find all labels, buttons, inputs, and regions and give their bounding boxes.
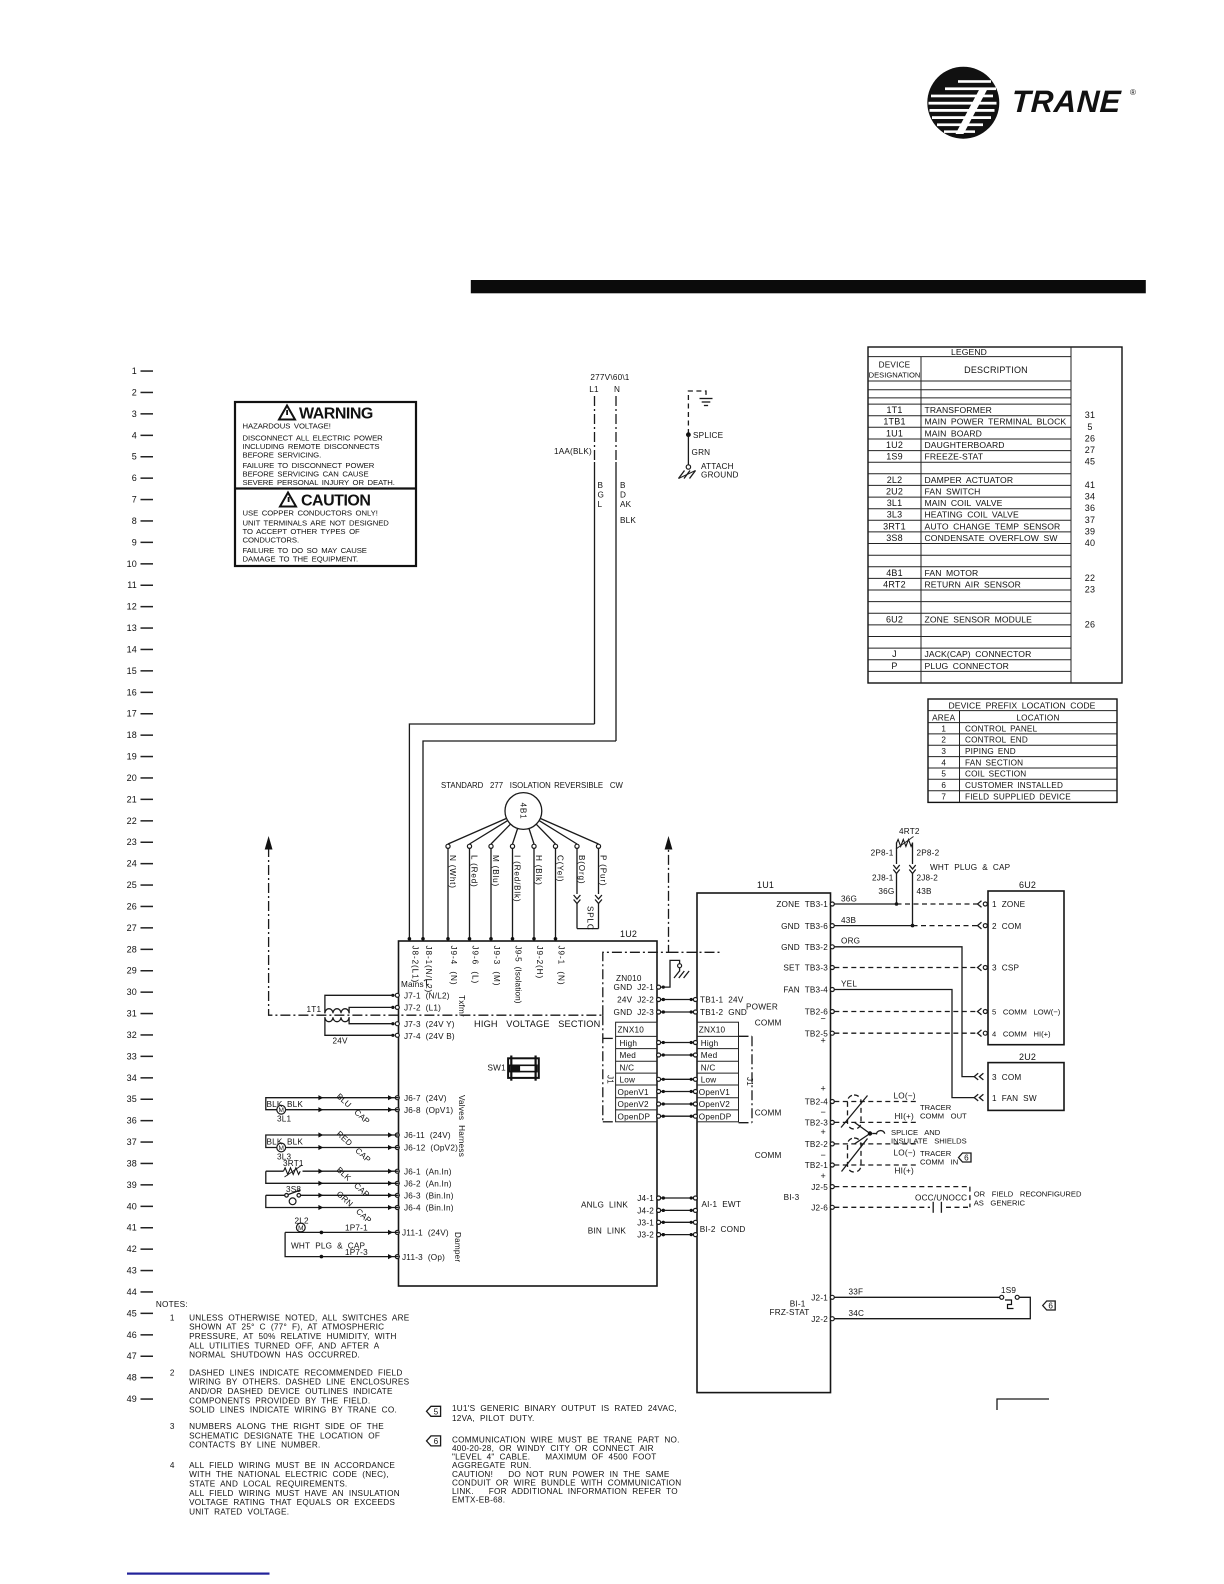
svg-text:J7-2 (L1): J7-2 (L1) bbox=[404, 1003, 441, 1012]
svg-text:TB1-1 24V: TB1-1 24V bbox=[700, 996, 744, 1005]
svg-text:18: 18 bbox=[127, 730, 137, 740]
svg-text:POWER: POWER bbox=[746, 1003, 778, 1012]
svg-text:41: 41 bbox=[127, 1223, 137, 1233]
1U2 damper pins J11 bbox=[395, 1229, 462, 1263]
svg-text:JACK(CAP) CONNECTOR: JACK(CAP) CONNECTOR bbox=[925, 649, 1032, 659]
wire GRN bbox=[688, 435, 710, 465]
svg-text:B(Org): B(Org) bbox=[577, 855, 586, 884]
svg-text:22: 22 bbox=[127, 816, 137, 826]
motor wire N (Wht) to 1U2 bbox=[446, 848, 457, 941]
twisted pair capsule in bbox=[842, 1134, 871, 1173]
svg-text:ANLG LINK: ANLG LINK bbox=[581, 1201, 628, 1210]
1U2 top pin labels bbox=[410, 946, 565, 1004]
svg-text:SW1: SW1 bbox=[488, 1064, 507, 1073]
svg-text:36: 36 bbox=[1085, 503, 1095, 513]
1U1 TB1 power pins bbox=[700, 996, 778, 1017]
svg-text:LO(−): LO(−) bbox=[894, 1092, 916, 1101]
wire ZNX10 OpenV2 bbox=[657, 1102, 698, 1106]
svg-text:J2-2: J2-2 bbox=[811, 1315, 828, 1324]
svg-text:LO(−): LO(−) bbox=[894, 1148, 916, 1157]
svg-text:HIGH VOLTAGE SECTION: HIGH VOLTAGE SECTION bbox=[474, 1019, 600, 1029]
svg-text:Low: Low bbox=[620, 1075, 636, 1084]
svg-text:FAN SWITCH: FAN SWITCH bbox=[925, 487, 981, 497]
note 6 text bbox=[452, 1435, 681, 1504]
svg-text:ALL UTILITIES TURNED OFF, AND: ALL UTILITIES TURNED OFF, AND AFTER A bbox=[189, 1341, 380, 1350]
svg-text:13: 13 bbox=[127, 623, 137, 633]
1U2 Mains pins J7 bbox=[391, 980, 466, 1041]
svg-text:J2-1: J2-1 bbox=[811, 1294, 828, 1303]
wire SET TB3-3 to 6U2 CSP bbox=[834, 967, 977, 969]
svg-text:−: − bbox=[821, 1014, 826, 1024]
svg-text:2 COM: 2 COM bbox=[992, 922, 1021, 931]
svg-text:3 CSP: 3 CSP bbox=[992, 964, 1019, 973]
svg-text:6: 6 bbox=[941, 781, 946, 790]
svg-text:OpenV1: OpenV1 bbox=[699, 1088, 730, 1097]
svg-text:47: 47 bbox=[127, 1351, 137, 1361]
wire 24V J2-2 to TB1-1 bbox=[657, 998, 698, 1002]
wire L1 elbow to J8-2 bbox=[409, 724, 594, 941]
svg-text:J1: J1 bbox=[606, 1075, 615, 1084]
svg-text:12VA, PILOT DUTY.: 12VA, PILOT DUTY. bbox=[452, 1414, 535, 1423]
svg-text:PLUG CONNECTOR: PLUG CONNECTOR bbox=[925, 661, 1009, 671]
svg-text:1: 1 bbox=[170, 1313, 175, 1322]
svg-text:NOTES:: NOTES: bbox=[156, 1300, 188, 1309]
svg-text:36: 36 bbox=[127, 1116, 137, 1126]
wire ORG GND TB3-2 to 2U2 COM bbox=[834, 936, 974, 1076]
svg-text:OpenDP: OpenDP bbox=[699, 1112, 732, 1121]
svg-text:J6-7 (24V): J6-7 (24V) bbox=[404, 1094, 447, 1103]
svg-text:J3-2: J3-2 bbox=[637, 1231, 654, 1240]
svg-text:24V: 24V bbox=[333, 1037, 349, 1046]
svg-text:OR FIELD RECONFIGURED: OR FIELD RECONFIGURED bbox=[974, 1190, 1082, 1199]
svg-text:6U2: 6U2 bbox=[886, 614, 903, 624]
svg-text:High: High bbox=[620, 1039, 638, 1048]
svg-text:ZONE SENSOR MODULE: ZONE SENSOR MODULE bbox=[925, 614, 1033, 624]
motor terminal circles bbox=[446, 844, 601, 848]
legend table bbox=[868, 347, 1122, 683]
svg-text:23: 23 bbox=[127, 837, 137, 847]
svg-text:BEFORE SERVICING.: BEFORE SERVICING. bbox=[243, 451, 322, 460]
svg-text:49: 49 bbox=[127, 1394, 137, 1404]
svg-text:BI-3: BI-3 bbox=[784, 1193, 800, 1202]
svg-text:33F: 33F bbox=[849, 1288, 864, 1297]
wire L1 vertical bbox=[594, 396, 596, 724]
svg-text:WITH THE NATIONAL ELECTRIC COD: WITH THE NATIONAL ELECTRIC CODE (NEC), bbox=[189, 1470, 389, 1479]
wire color tag BDAK BLK bbox=[620, 481, 636, 525]
svg-text:16: 16 bbox=[127, 687, 137, 697]
1U1 ZNX10 connector block bbox=[697, 1022, 739, 1122]
svg-text:AS GENERIC: AS GENERIC bbox=[974, 1199, 1026, 1208]
wire ZNX10 OpenDP bbox=[657, 1114, 698, 1118]
svg-text:HAZARDOUS VOLTAGE!: HAZARDOUS VOLTAGE! bbox=[243, 422, 331, 431]
earth ground symbol top bbox=[688, 391, 712, 434]
svg-text:SHOWN AT 25° C (77° F), AT ATM: SHOWN AT 25° C (77° F), AT ATMOSPHERIC bbox=[189, 1323, 384, 1332]
svg-text:14: 14 bbox=[127, 644, 137, 654]
svg-text:DEVICE PREFIX LOCATION CODE: DEVICE PREFIX LOCATION CODE bbox=[948, 701, 1095, 711]
svg-text:Damper: Damper bbox=[453, 1232, 462, 1262]
svg-text:OpenV1: OpenV1 bbox=[618, 1088, 649, 1097]
svg-text:43: 43 bbox=[127, 1266, 137, 1276]
svg-text:5: 5 bbox=[941, 770, 946, 779]
svg-text:4: 4 bbox=[170, 1461, 175, 1470]
wire YEL FAN TB3-4 to 2U2 FAN SW bbox=[834, 980, 974, 1098]
wire TB2-5 to COMM HI bbox=[834, 1032, 977, 1034]
svg-text:J6-12 (OpV2): J6-12 (OpV2) bbox=[404, 1144, 458, 1153]
damper actuator 2L2 bbox=[285, 1216, 398, 1259]
svg-text:3: 3 bbox=[132, 409, 137, 419]
svg-text:TB2-2: TB2-2 bbox=[805, 1140, 829, 1149]
svg-text:J6-1 (An.In): J6-1 (An.In) bbox=[404, 1167, 452, 1176]
node L1 277V feed bbox=[589, 373, 630, 394]
svg-text:CONTACTS BY LINE NUMBER.: CONTACTS BY LINE NUMBER. bbox=[189, 1441, 320, 1450]
SPLC splice bracket bbox=[577, 906, 599, 931]
note 5 text bbox=[452, 1404, 677, 1423]
svg-text:36G: 36G bbox=[841, 895, 857, 904]
svg-text:COMPONENTS PROVIDED BY THE FIE: COMPONENTS PROVIDED BY THE FIELD. bbox=[189, 1396, 370, 1405]
svg-text:5 COMM LOW(−): 5 COMM LOW(−) bbox=[992, 1008, 1061, 1017]
freeze stat 1S9 circuit bbox=[834, 1286, 1030, 1319]
svg-text:23: 23 bbox=[1085, 585, 1095, 595]
fan switch 2U2 bbox=[988, 1052, 1064, 1111]
svg-text:J7-1 (N/L2): J7-1 (N/L2) bbox=[404, 991, 450, 1000]
svg-text:4: 4 bbox=[941, 758, 946, 767]
svg-text:J9-4 (N): J9-4 (N) bbox=[449, 946, 458, 986]
svg-text:48: 48 bbox=[127, 1373, 137, 1383]
svg-text:6: 6 bbox=[964, 1154, 969, 1163]
wire N vertical bbox=[615, 396, 617, 741]
return air sensor 4RT2 bbox=[871, 827, 1011, 927]
motor wire C(Yel) to 1U2 bbox=[554, 848, 565, 941]
svg-text:4 COMM HI(+): 4 COMM HI(+) bbox=[992, 1029, 1051, 1038]
svg-text:43B: 43B bbox=[917, 887, 933, 896]
svg-text:OpenV2: OpenV2 bbox=[699, 1100, 730, 1109]
svg-text:FAN TB3-4: FAN TB3-4 bbox=[783, 986, 828, 995]
high voltage section boundary bbox=[265, 836, 720, 1015]
svg-text:3L3: 3L3 bbox=[887, 510, 903, 520]
J1 bracket 1U1 bbox=[739, 1036, 755, 1122]
wire J3-1 BI-2 bbox=[657, 1220, 698, 1224]
svg-text:34: 34 bbox=[127, 1073, 137, 1083]
device prefix location code table bbox=[928, 699, 1117, 802]
svg-text:MAIN POWER TERMINAL BLOCK: MAIN POWER TERMINAL BLOCK bbox=[925, 417, 1067, 427]
svg-text:COMM: COMM bbox=[755, 1109, 782, 1118]
wire color tag BGL bbox=[598, 481, 605, 509]
svg-text:Low: Low bbox=[701, 1075, 717, 1084]
shield splice bbox=[868, 1131, 885, 1136]
svg-text:37: 37 bbox=[1085, 515, 1095, 525]
svg-text:FRZ-STAT: FRZ-STAT bbox=[770, 1308, 810, 1317]
svg-text:M: M bbox=[298, 1225, 303, 1232]
svg-text:1P7-3: 1P7-3 bbox=[345, 1248, 368, 1257]
svg-text:WHT PLUG & CAP: WHT PLUG & CAP bbox=[930, 863, 1011, 872]
warning caution box bbox=[235, 402, 416, 566]
svg-text:40: 40 bbox=[127, 1201, 137, 1211]
svg-text:33: 33 bbox=[127, 1051, 137, 1061]
svg-text:FIELD SUPPLIED DEVICE: FIELD SUPPLIED DEVICE bbox=[965, 792, 1071, 801]
svg-text:MAIN BOARD: MAIN BOARD bbox=[925, 428, 982, 438]
valve 3L3 bbox=[266, 1129, 399, 1165]
svg-text:J11-1 (24V): J11-1 (24V) bbox=[402, 1229, 449, 1238]
svg-text:25: 25 bbox=[127, 880, 137, 890]
svg-text:26: 26 bbox=[127, 901, 137, 911]
DIP switch SW1 bbox=[488, 1056, 539, 1081]
svg-text:INSULATE SHIELDS: INSULATE SHIELDS bbox=[891, 1137, 967, 1146]
svg-text:46: 46 bbox=[127, 1330, 137, 1340]
svg-text:LOCATION: LOCATION bbox=[1016, 714, 1059, 723]
svg-text:17: 17 bbox=[127, 709, 137, 719]
svg-text:22: 22 bbox=[1085, 573, 1095, 583]
svg-text:3L1: 3L1 bbox=[277, 1115, 292, 1124]
svg-text:J3-1: J3-1 bbox=[637, 1218, 654, 1227]
svg-text:J6-2 (An.In): J6-2 (An.In) bbox=[404, 1180, 452, 1189]
svg-text:J9-3 (M): J9-3 (M) bbox=[492, 946, 501, 987]
svg-text:GND TB3-6: GND TB3-6 bbox=[781, 922, 828, 931]
svg-text:P (Pur): P (Pur) bbox=[599, 855, 608, 886]
svg-text:31: 31 bbox=[127, 1009, 137, 1019]
fan motor 4B1 bbox=[505, 793, 542, 830]
svg-text:+: + bbox=[821, 1084, 826, 1094]
svg-text:45: 45 bbox=[1085, 457, 1095, 467]
svg-text:C(Yel): C(Yel) bbox=[556, 855, 565, 882]
tracer comm in wires bbox=[834, 1144, 916, 1165]
2U2 pin connectors bbox=[974, 1073, 983, 1101]
svg-text:1U1: 1U1 bbox=[757, 880, 774, 890]
svg-text:7: 7 bbox=[941, 792, 946, 801]
svg-text:42: 42 bbox=[127, 1244, 137, 1254]
svg-text:CONDENSATE OVERFLOW SW: CONDENSATE OVERFLOW SW bbox=[925, 533, 1059, 543]
svg-text:ZNX10: ZNX10 bbox=[618, 1026, 645, 1035]
svg-text:DAUGHTERBOARD: DAUGHTERBOARD bbox=[925, 440, 1005, 450]
motor wire H (Blk) to 1U2 bbox=[532, 848, 543, 941]
svg-text:COMM: COMM bbox=[755, 1151, 782, 1160]
condensate overflow switch 3S8 bbox=[266, 1185, 399, 1226]
svg-text:3 COM: 3 COM bbox=[992, 1073, 1021, 1082]
6U2 pin connectors bbox=[978, 901, 988, 1037]
svg-text:−: − bbox=[821, 1150, 826, 1160]
svg-text:26: 26 bbox=[1085, 434, 1095, 444]
blue reference line bbox=[127, 1573, 270, 1575]
svg-text:MAIN COIL VALVE: MAIN COIL VALVE bbox=[925, 498, 1003, 508]
svg-text:1 FAN SW: 1 FAN SW bbox=[992, 1094, 1037, 1103]
svg-text:29: 29 bbox=[127, 966, 137, 976]
svg-text:1TB1: 1TB1 bbox=[883, 417, 905, 427]
svg-text:FAN MOTOR: FAN MOTOR bbox=[925, 568, 979, 578]
svg-text:2J8-1: 2J8-1 bbox=[872, 874, 894, 883]
wire J3-2 bbox=[657, 1233, 698, 1237]
svg-text:2U2: 2U2 bbox=[1019, 1052, 1036, 1062]
svg-text:SOLID LINES INDICATE WIRING BY: SOLID LINES INDICATE WIRING BY TRANE CO. bbox=[189, 1406, 397, 1415]
svg-text:1S9: 1S9 bbox=[1001, 1286, 1016, 1295]
svg-text:5: 5 bbox=[132, 452, 137, 462]
svg-text:TB1-2 GND: TB1-2 GND bbox=[700, 1008, 747, 1017]
svg-text:DASHED LINES INDICATE RECOMMEN: DASHED LINES INDICATE RECOMMENDED FIELD bbox=[189, 1368, 402, 1377]
svg-text:GRN: GRN bbox=[692, 448, 711, 457]
tracer comm labels bbox=[891, 1092, 967, 1176]
svg-text:AUTO CHANGE TEMP SENSOR: AUTO CHANGE TEMP SENSOR bbox=[925, 521, 1061, 531]
1U2 ZNX10 connector block bbox=[616, 1022, 657, 1122]
svg-text:D: D bbox=[620, 491, 626, 500]
svg-text:DAMAGE TO THE EQUIPMENT.: DAMAGE TO THE EQUIPMENT. bbox=[243, 555, 359, 564]
svg-text:34C: 34C bbox=[849, 1309, 865, 1318]
svg-text:4RT2: 4RT2 bbox=[899, 827, 920, 836]
svg-text:J7-4 (24V B): J7-4 (24V B) bbox=[404, 1032, 455, 1041]
wire N elbow to J8-1 bbox=[423, 741, 616, 941]
ground at GND J2-1 bbox=[661, 960, 690, 987]
svg-text:TRANSFORMER: TRANSFORMER bbox=[925, 405, 992, 415]
svg-text:FAN SECTION: FAN SECTION bbox=[965, 758, 1023, 767]
svg-text:5: 5 bbox=[434, 1407, 439, 1416]
wire ZNX10 High bbox=[657, 1041, 698, 1045]
svg-text:1 ZONE: 1 ZONE bbox=[992, 900, 1026, 909]
zone sensor module 6U2 bbox=[988, 880, 1064, 1045]
drawing corner mark bbox=[997, 1399, 1049, 1410]
svg-text:27: 27 bbox=[127, 923, 137, 933]
notes block bbox=[156, 1300, 410, 1516]
svg-text:BIN LINK: BIN LINK bbox=[588, 1227, 627, 1236]
svg-text:DEVICE: DEVICE bbox=[879, 361, 911, 370]
svg-text:SCHEMATIC DESIGNATE THE LOCATI: SCHEMATIC DESIGNATE THE LOCATION OF bbox=[189, 1431, 380, 1440]
svg-text:6: 6 bbox=[132, 473, 137, 483]
svg-text:1AA(BLK): 1AA(BLK) bbox=[554, 447, 592, 456]
svg-text:1U2: 1U2 bbox=[620, 929, 637, 939]
motor wire M (Blu) to 1U2 bbox=[489, 848, 500, 941]
valve 3L1 bbox=[266, 1092, 399, 1127]
svg-text:PRESSURE, AT 50% RELATIVE HUMI: PRESSURE, AT 50% RELATIVE HUMIDITY, WITH bbox=[189, 1332, 397, 1341]
svg-text:J6-3 (Bin.In): J6-3 (Bin.In) bbox=[404, 1192, 454, 1201]
svg-text:2: 2 bbox=[170, 1368, 175, 1377]
svg-text:ALL FIELD WIRING MUST BE IN AC: ALL FIELD WIRING MUST BE IN ACCORDANCE bbox=[189, 1461, 395, 1470]
svg-text:Med: Med bbox=[620, 1051, 637, 1060]
svg-text:1U1: 1U1 bbox=[886, 428, 903, 438]
svg-text:19: 19 bbox=[127, 752, 137, 762]
svg-text:24: 24 bbox=[127, 859, 137, 869]
svg-text:2L2: 2L2 bbox=[887, 475, 903, 485]
svg-text:USE COPPER CONDUCTORS ONLY!: USE COPPER CONDUCTORS ONLY! bbox=[243, 509, 378, 518]
svg-text:5: 5 bbox=[1087, 422, 1092, 432]
svg-text:J6-11 (24V): J6-11 (24V) bbox=[404, 1131, 451, 1140]
svg-text:VOLTAGE RATING THAT EQUALS OR: VOLTAGE RATING THAT EQUALS OR EXCEEDS bbox=[189, 1498, 395, 1507]
svg-text:WARNING: WARNING bbox=[299, 406, 373, 423]
svg-text:RETURN AIR SENSOR: RETURN AIR SENSOR bbox=[925, 579, 1021, 589]
svg-text:J9-2(H): J9-2(H) bbox=[535, 946, 544, 980]
svg-text:J6-4 (Bin.In): J6-4 (Bin.In) bbox=[404, 1204, 454, 1213]
title bar bbox=[471, 280, 1146, 293]
svg-text:J9-1 (N): J9-1 (N) bbox=[557, 946, 566, 986]
svg-text:ZNX10: ZNX10 bbox=[699, 1026, 726, 1035]
svg-text:N/C: N/C bbox=[620, 1064, 635, 1073]
motor wire B(Org) to splice bbox=[574, 848, 587, 928]
note tag 6 bbox=[427, 1436, 441, 1446]
svg-text:3S8: 3S8 bbox=[886, 533, 903, 543]
svg-text:J8-1(N/L2): J8-1(N/L2) bbox=[424, 946, 433, 994]
svg-text:L1: L1 bbox=[589, 385, 599, 394]
svg-text:UNLESS OTHERWISE NOTED, ALL SW: UNLESS OTHERWISE NOTED, ALL SWITCHES ARE bbox=[189, 1313, 410, 1322]
transformer 1T1 bbox=[307, 995, 394, 1045]
svg-text:LEGEND: LEGEND bbox=[951, 347, 987, 357]
svg-text:1U2: 1U2 bbox=[886, 440, 903, 450]
svg-text:−: − bbox=[821, 1107, 826, 1117]
svg-text:Med: Med bbox=[701, 1051, 718, 1060]
svg-text:ZN010: ZN010 bbox=[616, 974, 642, 983]
svg-text:N/C: N/C bbox=[701, 1064, 716, 1073]
svg-text:TB2-1: TB2-1 bbox=[805, 1161, 829, 1170]
svg-text:1T1: 1T1 bbox=[307, 1005, 322, 1014]
svg-text:6: 6 bbox=[434, 1437, 439, 1446]
svg-text:WIRING BY OTHERS. DASHED LINE: WIRING BY OTHERS. DASHED LINE ENCLOSURES bbox=[189, 1378, 410, 1387]
svg-text:+: + bbox=[821, 1036, 826, 1046]
line number ruler 1-49 bbox=[127, 366, 153, 1404]
svg-text:STATE AND LOCAL REQUIREMENTS.: STATE AND LOCAL REQUIREMENTS. bbox=[189, 1480, 347, 1489]
svg-text:CONDUCTORS.: CONDUCTORS. bbox=[243, 536, 300, 545]
TRANE logo circle bbox=[927, 67, 999, 139]
1U1 analog binary link labels bbox=[700, 1200, 746, 1234]
svg-text:31: 31 bbox=[1085, 410, 1095, 420]
svg-text:CUSTOMER INSTALLED: CUSTOMER INSTALLED bbox=[965, 781, 1063, 790]
wire 36G ZONE TB3-1 to 6U2 bbox=[834, 895, 977, 905]
svg-text:M (Blu): M (Blu) bbox=[491, 855, 500, 887]
main board 1U1 bbox=[697, 880, 831, 1393]
svg-text:26: 26 bbox=[1085, 619, 1095, 629]
svg-text:2: 2 bbox=[132, 387, 137, 397]
wire ZNX10 OpenV1 bbox=[657, 1090, 698, 1094]
svg-text:39: 39 bbox=[127, 1180, 137, 1190]
wire ZNX10 Med bbox=[657, 1053, 698, 1057]
temp sensor 3RT1 bbox=[266, 1159, 399, 1199]
svg-text:DESCRIPTION: DESCRIPTION bbox=[964, 365, 1028, 375]
svg-text:24V J2-2: 24V J2-2 bbox=[617, 996, 654, 1005]
svg-text:4B1: 4B1 bbox=[886, 568, 903, 578]
svg-text:43B: 43B bbox=[841, 916, 857, 925]
svg-text:277V\60\1: 277V\60\1 bbox=[590, 373, 629, 382]
svg-text:38: 38 bbox=[127, 1158, 137, 1168]
svg-text:CONTROL END: CONTROL END bbox=[965, 736, 1028, 745]
svg-text:J2-5: J2-5 bbox=[811, 1183, 828, 1192]
svg-text:32: 32 bbox=[127, 1030, 137, 1040]
note tag 6 frz-stat bbox=[1043, 1301, 1056, 1311]
svg-text:2J8-2: 2J8-2 bbox=[917, 874, 939, 883]
svg-text:ALL FIELD WIRING MUST HAVE AN: ALL FIELD WIRING MUST HAVE AN INSULATION bbox=[189, 1489, 400, 1498]
svg-text:4: 4 bbox=[132, 430, 137, 440]
svg-text:28: 28 bbox=[127, 944, 137, 954]
svg-text:AREA: AREA bbox=[932, 714, 955, 723]
svg-text:AI-1 EWT: AI-1 EWT bbox=[702, 1200, 742, 1209]
svg-text:J: J bbox=[892, 649, 897, 659]
wire 43B GND TB3-6 to 6U2 bbox=[834, 916, 977, 926]
svg-text:COMM: COMM bbox=[755, 1019, 782, 1028]
svg-text:40: 40 bbox=[1085, 538, 1095, 548]
svg-text:J9-6 (L): J9-6 (L) bbox=[471, 946, 480, 985]
svg-text:NORMAL SHUTDOWN HAS OCCURRED.: NORMAL SHUTDOWN HAS OCCURRED. bbox=[189, 1351, 360, 1360]
svg-text:21: 21 bbox=[127, 794, 137, 804]
wire ZNX10 Low bbox=[657, 1077, 698, 1081]
svg-text:AK: AK bbox=[620, 500, 632, 509]
1U2 ANLG BIN link pins bbox=[581, 1194, 665, 1240]
svg-text:PIPING END: PIPING END bbox=[965, 747, 1016, 756]
svg-text:N: N bbox=[614, 385, 620, 394]
svg-text:BLK: BLK bbox=[620, 516, 636, 525]
svg-text:GND J2-1: GND J2-1 bbox=[614, 983, 655, 992]
svg-text:DAMPER ACTUATOR: DAMPER ACTUATOR bbox=[925, 475, 1014, 485]
svg-text:J11-3 (Op): J11-3 (Op) bbox=[402, 1253, 445, 1262]
svg-text:36G: 36G bbox=[878, 887, 894, 896]
svg-text:N (Wht): N (Wht) bbox=[448, 855, 457, 889]
svg-text:HEATING COIL VALVE: HEATING COIL VALVE bbox=[925, 510, 1019, 520]
svg-text:1: 1 bbox=[941, 724, 946, 733]
svg-text:AND/OR DASHED DEVICE OUTLINES: AND/OR DASHED DEVICE OUTLINES INDICATE bbox=[189, 1387, 393, 1396]
svg-text:Valves Harness: Valves Harness bbox=[457, 1095, 466, 1157]
svg-text:YEL: YEL bbox=[841, 980, 857, 989]
wire J4-2 bbox=[657, 1208, 698, 1212]
